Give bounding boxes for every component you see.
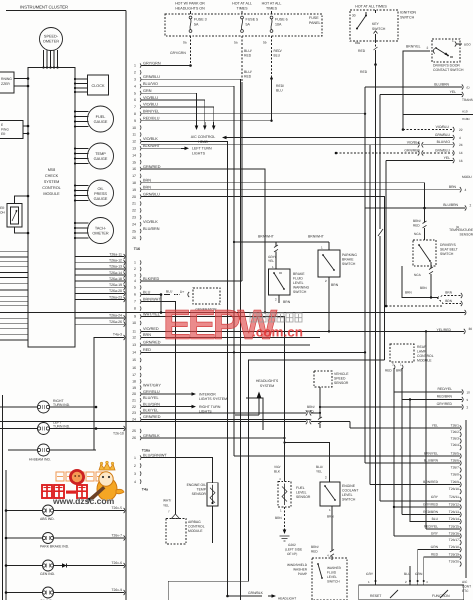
svg-text:SWITCH: SWITCH [400, 16, 415, 20]
svg-text:OF I/P): OF I/P) [287, 552, 297, 556]
svg-text:BRN: BRN [327, 515, 334, 519]
svg-text:BLU/: BLU/ [316, 465, 323, 469]
fuse F3 [189, 11, 206, 36]
seat belt warning box [0, 121, 23, 139]
wire RED ignition lower [375, 65, 377, 586]
svg-text:RED/BRN: RED/BRN [423, 510, 438, 514]
svg-text:T26a-20: T26a-20 [109, 289, 122, 293]
wire YEL y94.5 [380, 90, 463, 97]
svg-text:BRN/WHT: BRN/WHT [258, 235, 274, 239]
wire pin7 VIO/BLU [141, 107, 214, 122]
wire pin1 GRY/GRN [141, 65, 191, 67]
svg-text:GRN/BLK: GRN/BLK [248, 591, 264, 595]
svg-text:YEL: YEL [163, 504, 169, 508]
svg-text:5: 5 [134, 286, 136, 290]
svg-text:2: 2 [134, 267, 136, 271]
svg-text:24: 24 [459, 143, 463, 147]
hidden label right [462, 117, 471, 121]
svg-text:22: 22 [132, 405, 136, 409]
wire T16-4 BLK/RED [141, 280, 242, 282]
svg-text:14: 14 [132, 351, 136, 355]
svg-text:HEADLIGHTS ON: HEADLIGHTS ON [175, 7, 205, 11]
svg-text:3: 3 [134, 472, 136, 476]
T16 pin 5 [134, 285, 141, 289]
OIL PRESS gauge [88, 180, 114, 206]
vertical wire x370 [369, 145, 371, 485]
svg-text:FUSE 5: FUSE 5 [246, 18, 259, 22]
T16a pin 2 [134, 463, 141, 467]
svg-text:BRN/: BRN/ [311, 545, 319, 549]
svg-text:9: 9 [134, 119, 136, 123]
svg-text:2: 2 [405, 580, 407, 584]
wire GRN/BLK arrow headlight [226, 591, 296, 600]
svg-text:1: 1 [329, 508, 331, 512]
svg-text:GRN: GRN [143, 89, 152, 93]
T16 pin 3 [134, 273, 141, 277]
svg-text:RED/YEL: RED/YEL [424, 525, 438, 529]
svg-text:T26/19: T26/19 [449, 553, 459, 557]
svg-text:GRN/BLU: GRN/BLU [435, 148, 451, 152]
T16 pin 11 [132, 327, 159, 333]
BRN junction net [402, 266, 462, 306]
svg-text:BLU: BLU [432, 517, 439, 521]
connector row T26/13 [423, 510, 461, 517]
svg-text:ENGINE OIL: ENGINE OIL [187, 483, 207, 487]
svg-text:REAR: REAR [417, 345, 427, 349]
svg-text:13: 13 [132, 147, 136, 151]
svg-text:SENSOR: SENSOR [296, 495, 311, 499]
svg-text:RED: RED [311, 550, 318, 554]
speedometer B1 [40, 28, 63, 51]
wire row 412.9 BLK/YEL [141, 410, 321, 415]
svg-text:LEVEL: LEVEL [296, 491, 307, 495]
svg-text:GAUGE: GAUGE [94, 157, 108, 161]
vertical wire x380 [379, 95, 381, 502]
svg-text:RED: RED [360, 70, 368, 74]
wire pin4 BLU/VIO [141, 86, 234, 456]
svg-text:SWITCH: SWITCH [372, 27, 386, 31]
wire RED/BLU vertical [270, 79, 272, 122]
wire T26-9 BRN/RED [370, 484, 460, 486]
svg-text:T16: T16 [134, 247, 140, 251]
TEMP GAUGE gauge [88, 143, 114, 169]
svg-text:LIGHTS: LIGHTS [192, 152, 206, 156]
svg-text:BRN/: BRN/ [413, 219, 421, 223]
svg-text:ETC: ETC [462, 589, 469, 593]
svg-text:MODULE: MODULE [43, 192, 60, 196]
connector row T26/8 [451, 473, 462, 480]
wire GRN/RED dashed row 153 [335, 148, 463, 155]
left turn indicator lamp [0, 421, 125, 436]
svg-text:T26/10: T26/10 [449, 487, 459, 491]
svg-text:SPEED: SPEED [334, 377, 346, 381]
svg-text:T26/12: T26/12 [449, 503, 459, 507]
T16 pin 10 [132, 321, 141, 325]
svg-text:26: 26 [132, 236, 136, 240]
wire pin5 GRN [141, 93, 197, 122]
svg-text:PING: PING [1, 128, 9, 132]
svg-text:YEL: YEL [432, 424, 438, 428]
svg-text:BOO: BOO [464, 43, 471, 47]
svg-text:6: 6 [134, 98, 136, 102]
brake switch ground wire [275, 295, 291, 304]
svg-text:CHECK: CHECK [45, 174, 59, 178]
fuel level sensor [274, 465, 311, 531]
cluster pin 3 [134, 75, 160, 81]
svg-text:T26/18: T26/18 [449, 545, 459, 549]
svg-text:BLU/: BLU/ [244, 49, 252, 53]
connector row T26/19 [431, 553, 461, 560]
cluster pin 11 [132, 132, 141, 136]
svg-text:(D: (D [467, 86, 471, 90]
T16 pin 16 [132, 366, 141, 370]
wire T26-5 BRN/YEL [234, 455, 460, 457]
wire pin8 BRN/YEL [141, 113, 366, 115]
svg-text:T26/9: T26/9 [451, 480, 460, 484]
svg-text:RED: RED [358, 49, 366, 53]
svg-text:T26/13: T26/13 [449, 510, 459, 514]
wire RED ignition [358, 41, 378, 74]
svg-text:T26/15: T26/15 [449, 525, 459, 529]
svg-text:A/C CONTROL: A/C CONTROL [191, 135, 216, 139]
svg-text:CONTROL: CONTROL [42, 186, 61, 190]
connector row T26/14 [432, 517, 462, 524]
wire VIO/BLK row 145 [141, 140, 463, 147]
svg-text:RED: RED [385, 369, 392, 373]
wire BLU/BRN row 208 [365, 203, 472, 211]
svg-text:30: 30 [469, 327, 473, 331]
svg-text:WHT/YEL: WHT/YEL [143, 312, 160, 316]
svg-text:T26/17: T26/17 [449, 538, 459, 542]
ignition 86s label [355, 41, 361, 45]
svg-text:12: 12 [132, 336, 136, 340]
svg-text:www.dzsc.com: www.dzsc.com [52, 496, 115, 506]
svg-text:26: 26 [132, 436, 136, 440]
svg-text:16: 16 [459, 159, 463, 163]
wire BRN/YEL door switch [403, 45, 430, 115]
wire T26-20 [381, 236, 383, 360]
svg-text:VIO/BLU: VIO/BLU [143, 96, 158, 100]
svg-text:VIO/BLU: VIO/BLU [143, 103, 158, 107]
svg-text:20: 20 [132, 392, 136, 396]
T16 pin 1 [134, 260, 141, 264]
svg-text:3: 3 [134, 274, 136, 278]
T16 pin 13 [132, 341, 161, 347]
svg-text:14: 14 [132, 153, 136, 157]
svg-text:PRESS: PRESS [94, 192, 107, 196]
wire YEL row 160.5 [386, 156, 463, 306]
svg-text:GRN/RED: GRN/RED [143, 415, 161, 419]
svg-text:VIO/RED: VIO/RED [143, 327, 159, 331]
wire BRN/WHT labels [258, 235, 324, 239]
svg-text:BLU/BRN: BLU/BRN [143, 227, 160, 231]
svg-text:GRY/RED: GRY/RED [423, 503, 439, 507]
svg-text:GRN/BLK: GRN/BLK [143, 434, 160, 438]
seat belt warning wires [23, 125, 29, 135]
svg-text:4: 4 [465, 188, 467, 192]
clock [88, 75, 109, 95]
svg-text:14: 14 [459, 151, 463, 155]
connector row T26/3 [451, 437, 462, 444]
WHT/YEL label [163, 499, 171, 508]
generator box [193, 288, 220, 312]
wire GRY/GRN fuse drop [170, 36, 192, 67]
svg-text:YEL: YEL [450, 90, 457, 94]
svg-text:4: 4 [134, 279, 136, 283]
connector T16a header [142, 449, 151, 453]
svg-text:BRN/YEL: BRN/YEL [143, 110, 159, 114]
svg-text:BRN/YEL: BRN/YEL [406, 45, 421, 49]
svg-text:5A: 5A [246, 23, 251, 27]
svg-text:GAUGE: GAUGE [94, 197, 108, 201]
svg-text:1: 1 [280, 509, 282, 513]
svg-text:T26a-14: T26a-14 [109, 271, 122, 275]
wire T26-1 YEL [350, 427, 460, 429]
wire BLU/BRN y87 [365, 83, 470, 90]
svg-text:COOLANT: COOLANT [342, 489, 358, 493]
T16 pin 17 [132, 373, 141, 377]
temperature sensor label [449, 225, 473, 237]
svg-text:.com.cn: .com.cn [252, 325, 303, 340]
svg-text:T26/7: T26/7 [451, 466, 460, 470]
T16 pin 15 [132, 358, 141, 362]
wire stub headlights feed [235, 414, 259, 416]
cluster pin 24 [132, 220, 158, 226]
FUEL gauge wires [74, 110, 89, 127]
svg-text:T26/11: T26/11 [449, 495, 459, 499]
svg-text:ZZER: ZZER [1, 82, 10, 86]
cluster pin 22 [132, 208, 141, 212]
svg-text:GRY/GRN: GRY/GRN [170, 51, 186, 55]
A/C arrow 1 [195, 122, 199, 130]
rear lamp control module [385, 344, 434, 373]
connector row T26/18 [431, 545, 462, 552]
wire row 337.4 BRN [141, 336, 320, 338]
svg-text:KEY: KEY [372, 22, 380, 26]
dimmer rheostat [0, 204, 22, 228]
svg-text:BRN: BRN [420, 286, 427, 290]
cluster pin 2 [134, 70, 141, 74]
svg-text:BLU: BLU [166, 290, 173, 294]
svg-text:LEVEL: LEVEL [342, 493, 353, 497]
svg-text:RED/: RED/ [276, 84, 284, 88]
svg-text:LEVEL: LEVEL [293, 281, 304, 285]
T16 pin 9 [134, 312, 160, 318]
svg-text:GRN: GRN [415, 572, 423, 576]
svg-text:SENSOR: SENSOR [192, 492, 207, 496]
parking brake switch [318, 246, 357, 288]
TACH- gauge wires [74, 222, 89, 239]
ignition switch internals [352, 10, 386, 41]
svg-text:ER: ER [1, 132, 6, 136]
svg-text:13: 13 [132, 343, 136, 347]
svg-text:15: 15 [132, 358, 136, 362]
svg-text:10A: 10A [275, 23, 282, 27]
wire to coolant switch [283, 441, 329, 482]
wire T26a-20 [75, 289, 125, 296]
svg-text:8: 8 [134, 112, 136, 116]
svg-text:BLU/BRN: BLU/BRN [443, 203, 458, 207]
wire door to edge [456, 43, 471, 47]
svg-text:19: 19 [132, 188, 136, 192]
svg-text:TIMES: TIMES [237, 7, 249, 11]
svg-text:H10D: H10D [462, 117, 471, 121]
svg-text:T26/1: T26/1 [451, 424, 460, 428]
wire T26-15 RED/YEL [426, 528, 460, 530]
wire row 438 GRN/BLK [141, 437, 286, 439]
svg-text:HI-BEAM IND.: HI-BEAM IND. [29, 458, 51, 462]
svg-text:TRANS: TRANS [462, 98, 473, 102]
svg-text:T26-10: T26-10 [113, 432, 124, 436]
svg-text:2: 2 [134, 464, 136, 468]
cluster pin 26 [132, 236, 141, 240]
T16a pin 4 [134, 479, 141, 483]
wire to A/C head GRN/BLU [222, 133, 461, 140]
cluster pin 21 [132, 201, 141, 205]
svg-text:11: 11 [132, 133, 136, 137]
svg-text:WASHER: WASHER [327, 566, 342, 570]
svg-text:T26v-6: T26v-6 [111, 561, 122, 565]
svg-text:T26a-24: T26a-24 [109, 314, 122, 318]
svg-text:SYSTEM: SYSTEM [260, 384, 274, 388]
svg-text:T26/8: T26/8 [451, 473, 460, 477]
vertical x329 from brake switch [328, 283, 330, 331]
cluster pin 16 [132, 165, 161, 171]
svg-text:7: 7 [134, 105, 136, 109]
svg-text:SWITCH: SWITCH [293, 290, 307, 294]
svg-text:SYSTEM: SYSTEM [44, 180, 60, 184]
cluster pin 25 [132, 227, 160, 233]
wire row 419.4 GRN/RED [141, 418, 310, 420]
T16 pin 8 [134, 306, 141, 310]
svg-text:25: 25 [132, 429, 136, 433]
svg-text:HOT AT ALL: HOT AT ALL [232, 2, 252, 6]
svg-text:2: 2 [427, 46, 429, 50]
connector row T26/15 [424, 525, 461, 532]
wire T16a-1 BLU/GRN/WT [141, 458, 213, 483]
svg-text:1: 1 [134, 456, 136, 460]
svg-text:1: 1 [368, 580, 370, 584]
wire BLU/RED vertical to pin4 [241, 82, 243, 281]
T16 pin 14 [132, 348, 151, 354]
svg-text:GEN IND.: GEN IND. [40, 572, 55, 576]
svg-text:RED/YEL: RED/YEL [437, 387, 452, 391]
hot at all times label 2 [232, 2, 252, 11]
svg-text:18: 18 [132, 181, 136, 185]
svg-text:NCA: NCA [414, 273, 422, 277]
svg-text:SPEED-: SPEED- [44, 35, 59, 39]
svg-text:TEMPERATURE: TEMPERATURE [449, 228, 473, 232]
svg-text:5: 5 [134, 91, 136, 95]
vertical wire x365 [364, 87, 366, 463]
cluster pin 20 [132, 192, 160, 198]
svg-text:T26/2: T26/2 [451, 430, 460, 434]
svg-text:BLU: BLU [274, 54, 281, 58]
speedometer wires [42, 50, 58, 69]
svg-text:6: 6 [134, 293, 136, 297]
svg-text:AIRBAG: AIRBAG [188, 520, 201, 524]
svg-text:H10: H10 [462, 110, 468, 114]
T16 pin 23 [132, 409, 158, 415]
wire T26a-12 [75, 259, 125, 266]
svg-text:BRN/YEL: BRN/YEL [424, 452, 438, 456]
svg-text:8: 8 [134, 307, 136, 311]
connector row T26/16 [431, 532, 461, 539]
wire RED/BLU fuse drop [270, 36, 284, 93]
drivers door contact switch [432, 39, 464, 72]
cluster pin 19 [132, 186, 151, 192]
svg-text:T16a: T16a [142, 449, 151, 453]
cluster pin 8 [134, 110, 159, 116]
svg-text:CONTROL: CONTROL [417, 354, 434, 358]
corner wire x383 y360 [168, 360, 384, 600]
svg-text:BLU/BRN: BLU/BRN [424, 459, 439, 463]
wire T4a-3 [94, 333, 125, 451]
wire BLU/RED fuse drop [242, 36, 252, 82]
svg-text:INSTRUMENT CLUSTER: INSTRUMENT CLUSTER [20, 5, 68, 10]
svg-text:BRN: BRN [143, 333, 151, 337]
connector row T26/1 [432, 424, 461, 431]
ignition switch box [350, 10, 416, 41]
svg-text:VIO/BLU: VIO/BLU [436, 125, 450, 129]
svg-text:T26/14: T26/14 [449, 517, 459, 521]
svg-text:BLU: BLU [276, 89, 283, 93]
svg-text:HEADLIGHTS: HEADLIGHTS [256, 379, 279, 383]
TEMP gauge wires [74, 147, 89, 164]
svg-text:BRAKE: BRAKE [293, 272, 305, 276]
T16 pin 25 [132, 429, 141, 433]
svg-text:1: 1 [321, 246, 323, 250]
wire T26a-24 [75, 314, 125, 321]
wire stub corner 398 [246, 398, 263, 430]
svg-text:FUSE 3: FUSE 3 [194, 18, 207, 22]
GEN IND. lamp [5, 560, 125, 576]
svg-text:BRN: BRN [283, 300, 291, 304]
wire T16-7 BRN/WHT [141, 302, 176, 515]
svg-text:BLU/BRN: BLU/BRN [434, 83, 449, 87]
instrument cluster title [20, 5, 68, 10]
fuse terminal labels [183, 41, 267, 45]
T16 pin 26 [132, 434, 160, 440]
svg-text:VIO/BLK: VIO/BLK [143, 137, 158, 141]
wire T26-13 RED/BRN [402, 514, 460, 516]
svg-text:T26v-7: T26v-7 [111, 534, 122, 538]
watermark eepw [163, 301, 303, 348]
svg-text:19: 19 [132, 386, 136, 390]
svg-text:DRIVER'S DOOR: DRIVER'S DOOR [433, 64, 460, 68]
wire T26-16 GRY [394, 535, 460, 537]
wire pin3 GRN/BLU [141, 79, 241, 600]
svg-text:T26v-5: T26v-5 [111, 506, 122, 510]
watermark weiku text [42, 485, 115, 506]
connector row T26/7 [451, 466, 462, 473]
reset box wires [366, 572, 428, 584]
svg-text:RED/: RED/ [274, 49, 282, 53]
drivers seat belt switch [413, 208, 458, 298]
cluster pin 6 [134, 96, 158, 102]
T16 pin 2 [134, 267, 141, 271]
hi-beam indicator lamp [8, 444, 96, 462]
left page edge wire [2, 395, 4, 600]
svg-text:4: 4 [459, 136, 461, 140]
engine oil temp sensor [187, 483, 218, 506]
wire T26a-14 [75, 271, 125, 278]
svg-text:E: E [1, 123, 3, 127]
svg-text:WASHER: WASHER [293, 568, 308, 572]
svg-text:1: 1 [134, 64, 136, 68]
clock wires [74, 78, 88, 93]
wire YEL/RED [328, 327, 472, 334]
